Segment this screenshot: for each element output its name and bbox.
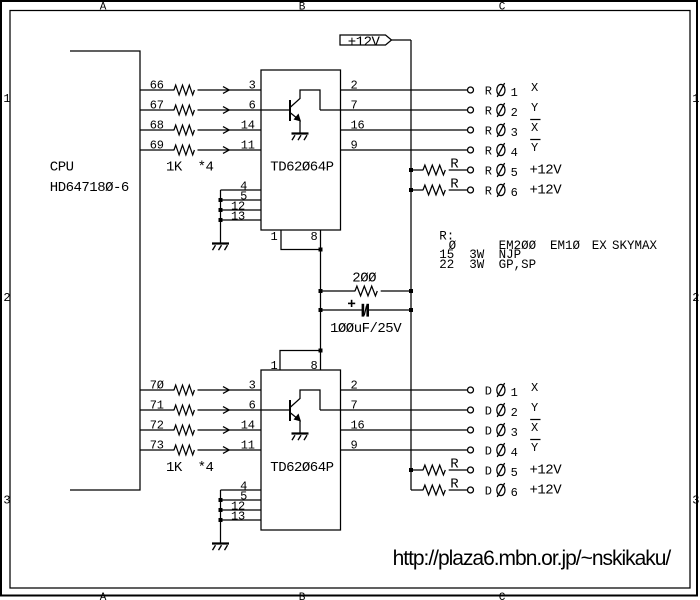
svg-text:2ØØ: 2ØØ <box>352 270 376 286</box>
wire 67 (continues to transistor base) <box>140 109 289 111</box>
junction dot <box>219 498 223 502</box>
junction dot <box>409 168 413 172</box>
wire 73 <box>140 449 261 451</box>
svg-text:3W: 3W <box>469 258 485 272</box>
svg-text:1: 1 <box>692 92 699 106</box>
svg-text:6: 6 <box>249 398 256 412</box>
wire pin 5 lower <box>221 499 262 501</box>
svg-text:X: X <box>531 81 538 95</box>
svg-text:14: 14 <box>241 418 255 432</box>
svg-text:C: C <box>499 592 506 600</box>
resistor R 1K (71) <box>174 404 197 416</box>
wire Rphi6 <box>411 189 468 191</box>
wire pin 2 output lower <box>341 389 468 391</box>
svg-text:Y: Y <box>531 441 538 455</box>
junction dot <box>319 308 323 312</box>
svg-text:1: 1 <box>271 230 278 244</box>
terminal Dphi4 <box>468 447 474 453</box>
svg-text:D: D <box>485 425 492 439</box>
terminal Rphi2 <box>468 107 474 113</box>
wire Rphi5 <box>411 169 468 171</box>
svg-text:R: R <box>485 125 492 139</box>
svg-text:4: 4 <box>511 446 518 460</box>
wire +12V to rail <box>392 39 412 41</box>
resistor R (Rphi6) <box>423 184 448 196</box>
junction dot <box>409 308 413 312</box>
svg-text:+12V: +12V <box>530 163 563 179</box>
svg-text:6: 6 <box>511 486 518 500</box>
svg-text:A: A <box>100 2 107 14</box>
resistor R 1K (69) <box>174 144 197 156</box>
svg-text:6: 6 <box>249 98 256 112</box>
svg-text:B: B <box>299 2 306 14</box>
terminal Dphi5 <box>468 467 474 473</box>
wire pin 5 upper <box>221 199 262 201</box>
terminal Rphi1 <box>468 87 474 93</box>
svg-text:2: 2 <box>3 291 10 305</box>
resistor R 1K (67) <box>174 104 197 116</box>
svg-text:http://plaza6.mbn.or.jp/~nskik: http://plaza6.mbn.or.jp/~nskikaku/ <box>393 547 672 570</box>
svg-text:R: R <box>450 457 459 473</box>
transistor Q1 collector <box>290 90 320 110</box>
svg-text:Y: Y <box>531 101 538 115</box>
junction dot <box>409 289 413 293</box>
svg-text:R: R <box>450 177 459 193</box>
transistor Q2 emitter arrowhead <box>294 414 302 422</box>
wire pin 7 output lower <box>320 409 468 411</box>
svg-text:3: 3 <box>511 426 518 440</box>
svg-text:66: 66 <box>150 79 164 93</box>
junction dot <box>219 508 223 512</box>
svg-text:7Ø: 7Ø <box>150 379 164 393</box>
svg-text:+12V: +12V <box>530 463 563 479</box>
arrow 69 <box>223 147 229 154</box>
resistor R 1K (73) <box>174 444 197 456</box>
resistor R 1K (66) <box>174 84 197 96</box>
svg-text:R: R <box>450 477 459 493</box>
terminal Dphi6 <box>468 487 474 493</box>
svg-text:X: X <box>531 421 538 435</box>
svg-text:3: 3 <box>3 493 10 507</box>
svg-text:11: 11 <box>241 138 255 152</box>
wire pin 7 output <box>320 109 468 111</box>
transistor Q1 base bar <box>289 100 291 121</box>
junction dot <box>219 218 223 222</box>
resistor R (Dphi6) <box>423 484 448 496</box>
svg-text:68: 68 <box>150 119 164 133</box>
wire Dphi5 <box>411 469 468 471</box>
resistor R (Dphi5) <box>423 464 448 476</box>
svg-text:TD62Ø64P: TD62Ø64P <box>270 159 333 175</box>
junction dot <box>219 198 223 202</box>
svg-text:3: 3 <box>249 378 256 392</box>
wire pin 4 lower <box>221 489 262 491</box>
resistor R 1K (68) <box>174 124 197 136</box>
svg-text:D: D <box>485 445 492 459</box>
svg-text:SKYMAX: SKYMAX <box>612 239 658 253</box>
wire pin 12 lower <box>221 509 262 511</box>
svg-text:CPU: CPU <box>50 159 74 175</box>
arrow 67 <box>223 107 229 114</box>
svg-text:7: 7 <box>351 398 358 412</box>
svg-text:R: R <box>450 157 459 173</box>
wire left rail <box>320 250 322 351</box>
svg-text:R: R <box>485 185 492 199</box>
svg-text:2: 2 <box>511 106 518 120</box>
svg-text:7: 7 <box>351 98 358 112</box>
wire capacitor row <box>321 309 363 311</box>
svg-text:HD64718Ø-6: HD64718Ø-6 <box>50 180 129 196</box>
op-amp U2 TD62064P box lower <box>261 370 341 530</box>
svg-text:D: D <box>485 485 492 499</box>
transistor Q1 emitter arrowhead <box>294 114 302 122</box>
wire 66 <box>140 89 261 91</box>
svg-text:9: 9 <box>351 138 358 152</box>
wire 70 <box>140 389 261 391</box>
wire 69 <box>140 149 261 151</box>
ground (Q1 emitter) <box>292 134 309 141</box>
ground (Q2 emitter) <box>292 434 309 441</box>
svg-text:3: 3 <box>692 493 699 507</box>
svg-text:71: 71 <box>150 399 164 413</box>
svg-text:Y: Y <box>531 401 538 415</box>
svg-text:R: R <box>485 85 492 99</box>
svg-text:1K *4: 1K *4 <box>166 460 214 476</box>
junction dot <box>409 188 413 192</box>
wire 68 <box>140 129 261 131</box>
svg-text:D: D <box>485 405 492 419</box>
svg-text:1: 1 <box>511 86 518 100</box>
terminal Rphi4 <box>468 147 474 153</box>
svg-text:3: 3 <box>249 78 256 92</box>
resistor R 1K (72) <box>174 424 197 436</box>
arrow 70 <box>223 387 229 394</box>
svg-text:67: 67 <box>150 99 164 113</box>
svg-text:D: D <box>485 465 492 479</box>
wire emitter to ground <box>299 421 301 434</box>
wire pin 4 upper <box>221 189 262 191</box>
arrow 71 <box>223 407 229 414</box>
svg-text:1: 1 <box>271 359 278 373</box>
wire 71 (continues to transistor base) <box>140 409 289 411</box>
CPU box <box>70 51 140 490</box>
svg-text:GP,SP: GP,SP <box>499 258 537 272</box>
wire +12V rail <box>410 40 412 490</box>
svg-text:R: R <box>485 165 492 179</box>
svg-text:3: 3 <box>511 126 518 140</box>
svg-text:5: 5 <box>511 166 518 180</box>
ground (lower bus) <box>212 544 229 551</box>
wire pin 13 upper <box>221 219 262 221</box>
svg-text:8: 8 <box>311 359 318 373</box>
svg-text:R: R <box>485 145 492 159</box>
svg-text:73: 73 <box>150 439 164 453</box>
svg-text:R: R <box>485 105 492 119</box>
svg-text:8: 8 <box>311 230 318 244</box>
wire ground bus lower <box>220 490 222 543</box>
svg-text:1: 1 <box>511 386 518 400</box>
svg-text:2: 2 <box>692 291 699 305</box>
wire pin 1 upper <box>281 230 321 250</box>
terminal Dphi1 <box>468 387 474 393</box>
junction dot <box>219 208 223 212</box>
svg-text:B: B <box>299 592 306 600</box>
svg-text:22: 22 <box>439 258 454 272</box>
terminal Dphi3 <box>468 427 474 433</box>
+12V net flag <box>340 35 392 45</box>
svg-text:D: D <box>485 385 492 399</box>
capacitor C1 100uF/25V <box>362 304 365 317</box>
wire pin 8 lower <box>320 351 322 371</box>
terminal Rphi3 <box>468 127 474 133</box>
svg-text:EM1Ø: EM1Ø <box>550 239 581 253</box>
wire pin 13 lower <box>221 519 262 521</box>
svg-text:C: C <box>499 2 506 14</box>
svg-text:4: 4 <box>511 146 518 160</box>
svg-text:2: 2 <box>511 406 518 420</box>
svg-text:69: 69 <box>150 139 164 153</box>
junction dot <box>319 248 323 252</box>
svg-text:Y: Y <box>531 141 538 155</box>
transistor Q2 base bar <box>289 400 291 421</box>
arrow 66 <box>223 87 229 94</box>
wire ground bus upper <box>220 190 222 243</box>
resistor 200 <box>355 285 380 297</box>
wire pin 16 output <box>341 129 468 131</box>
arrow 72 <box>223 427 229 434</box>
wire pin 2 output <box>341 89 468 91</box>
svg-text:72: 72 <box>150 419 164 433</box>
svg-text:6: 6 <box>511 186 518 200</box>
transistor Q2 emitter <box>290 413 298 420</box>
svg-text:14: 14 <box>241 118 255 132</box>
junction dot <box>319 349 323 353</box>
wire pin 16 output lower <box>341 429 468 431</box>
wire pin 9 output lower <box>341 449 468 451</box>
capacitor plus sign <box>348 302 355 304</box>
op-amp U1 TD62064P box upper <box>261 70 341 230</box>
svg-text:A: A <box>100 592 107 600</box>
svg-text:5: 5 <box>511 466 518 480</box>
svg-text:9: 9 <box>351 438 358 452</box>
resistor R (Rphi5) <box>423 164 448 176</box>
svg-text:+12V: +12V <box>530 483 563 499</box>
wire pin 1 lower <box>280 351 321 371</box>
terminal Rphi6 <box>468 187 474 193</box>
junction dot <box>219 518 223 522</box>
svg-text:16: 16 <box>351 118 365 132</box>
wire 72 <box>140 429 261 431</box>
junction dot <box>319 289 323 293</box>
svg-text:13: 13 <box>231 210 245 224</box>
svg-text:2: 2 <box>351 78 358 92</box>
resistor R 1K (70) <box>174 384 197 396</box>
terminal Rphi5 <box>468 167 474 173</box>
svg-text:EX: EX <box>592 239 608 253</box>
ground (upper bus) <box>212 244 229 251</box>
transistor Q1 emitter <box>290 113 298 120</box>
svg-text:16: 16 <box>351 418 365 432</box>
svg-text:X: X <box>531 381 538 395</box>
wire 200 resistor row <box>321 290 412 292</box>
svg-text:+12V: +12V <box>348 34 381 50</box>
svg-text:X: X <box>531 121 538 135</box>
wire pin 12 upper <box>221 209 262 211</box>
terminal Dphi2 <box>468 407 474 413</box>
wire pin 8 upper <box>320 230 322 250</box>
svg-text:2: 2 <box>351 378 358 392</box>
junction dot <box>409 468 413 472</box>
arrow 68 <box>223 127 229 134</box>
svg-text:1ØØuF/25V: 1ØØuF/25V <box>330 321 402 337</box>
svg-text:13: 13 <box>231 510 245 524</box>
wire pin 9 output <box>341 149 468 151</box>
svg-text:1: 1 <box>3 92 10 106</box>
transistor Q2 collector <box>290 390 320 410</box>
svg-text:TD62Ø64P: TD62Ø64P <box>270 460 333 476</box>
wire emitter to ground <box>299 121 301 134</box>
svg-text:1K *4: 1K *4 <box>166 159 214 175</box>
svg-text:11: 11 <box>241 438 255 452</box>
svg-text:+12V: +12V <box>530 183 563 199</box>
arrow 73 <box>223 447 229 454</box>
wire Dphi6 <box>411 489 468 491</box>
